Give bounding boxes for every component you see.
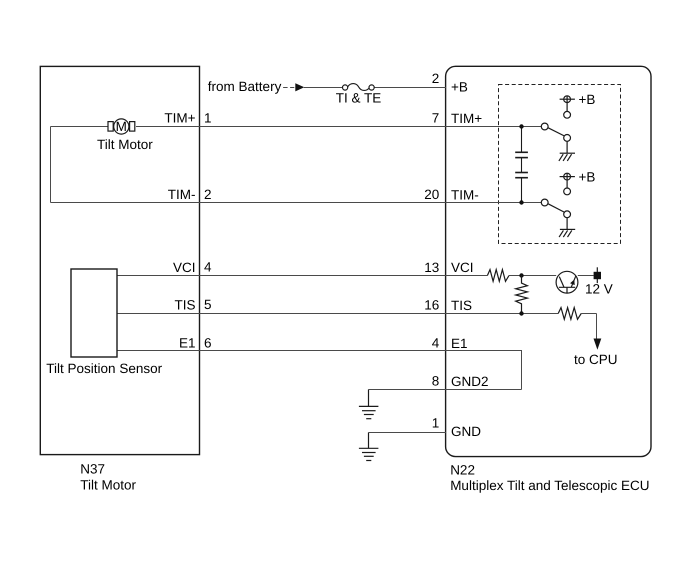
svg-text:Tilt Position Sensor: Tilt Position Sensor (46, 361, 162, 376)
svg-text:TIS: TIS (451, 298, 472, 313)
svg-text:7: 7 (432, 111, 440, 126)
capacitor C1 (515, 127, 528, 158)
wire TIS (117, 313, 558, 315)
relay contact SW1 (TIM+) with +B terminal and chassis ground (541, 96, 575, 161)
capacitor C2 (515, 158, 528, 203)
svg-text:2: 2 (204, 187, 212, 202)
wire GND2 (369, 389, 522, 391)
svg-text:GND2: GND2 (451, 374, 489, 389)
svg-text:13: 13 (424, 260, 439, 275)
svg-text:16: 16 (424, 298, 439, 313)
junction node TIS (519, 311, 523, 315)
fuse F1 TI & TE (343, 84, 375, 91)
transistor Q1 (NPN) (556, 271, 578, 293)
relay contact SW2 (TIM-) with +B terminal and chassis ground (541, 173, 575, 237)
svg-text:Tilt Motor: Tilt Motor (80, 477, 136, 492)
svg-text:5: 5 (204, 297, 212, 312)
wire loop vertical (50, 127, 52, 203)
svg-text:+B: +B (451, 79, 468, 94)
svg-text:Multiplex Tilt and Telescopic: Multiplex Tilt and Telescopic ECU (450, 478, 649, 493)
svg-text:TIM-: TIM- (451, 188, 479, 203)
dashed relay box (499, 85, 621, 244)
svg-text:1: 1 (432, 416, 440, 431)
svg-text:6: 6 (204, 336, 212, 351)
svg-text:N37: N37 (80, 462, 105, 477)
svg-text:Tilt Motor: Tilt Motor (97, 137, 153, 152)
arrow from Battery feed (295, 83, 304, 91)
wire TIM- (51, 202, 542, 204)
svg-text:E1: E1 (451, 336, 468, 351)
box N22 Multiplex Tilt and Telescopic ECU (446, 66, 651, 456)
svg-text:M: M (116, 119, 127, 134)
box Tilt Position Sensor (71, 269, 117, 357)
wire TIM+ motor to pivot (136, 126, 541, 128)
junction node TIM+ (519, 124, 523, 128)
svg-text:1: 1 (204, 111, 212, 126)
svg-text:20: 20 (424, 187, 439, 202)
arrow to CPU (594, 339, 602, 350)
svg-text:E1: E1 (179, 336, 196, 351)
svg-text:TIS: TIS (174, 298, 195, 313)
power terminal 12 V (594, 267, 601, 283)
motor M1 (Tilt Motor) (108, 119, 135, 134)
svg-text:+B: +B (579, 169, 596, 184)
svg-text:GND: GND (451, 424, 481, 439)
svg-text:TIM-: TIM- (168, 187, 196, 202)
wire to CPU vertical (596, 314, 598, 340)
svg-text:N22: N22 (450, 463, 475, 478)
svg-text:4: 4 (204, 259, 212, 274)
svg-text:TIM+: TIM+ (451, 111, 482, 126)
ground (earth) at GND2 (359, 390, 379, 419)
wire VCI (117, 275, 487, 277)
svg-text:TIM+: TIM+ (164, 111, 195, 126)
wire TIS resistor to corner (581, 313, 596, 315)
wire VCI junction to transistor (509, 275, 556, 277)
svg-text:2: 2 (432, 71, 440, 86)
svg-text:12 V: 12 V (585, 282, 613, 297)
junction node TIM- (519, 200, 523, 204)
svg-text:VCI: VCI (173, 260, 196, 275)
wire transistor to 12V square (578, 275, 594, 277)
wire motor left (51, 126, 109, 128)
resistor R1 horizontal VCI (487, 270, 509, 282)
resistor R3 horizontal TIS (558, 308, 581, 320)
wire GND (369, 432, 447, 434)
svg-text:VCI: VCI (451, 260, 474, 275)
ground (earth) at GND (359, 433, 379, 461)
svg-text:to CPU: to CPU (574, 352, 618, 367)
wire fuse to pin 2 (374, 87, 446, 89)
svg-text:4: 4 (432, 336, 440, 351)
junction node VCI (519, 273, 523, 277)
svg-text:TI & TE: TI & TE (336, 90, 382, 105)
box N37 Tilt Motor (40, 66, 199, 454)
wire from battery to fuse (304, 87, 343, 89)
wire E1 (117, 351, 522, 390)
svg-text:+B: +B (579, 92, 596, 107)
wire dashed lead from Battery (283, 87, 288, 89)
resistor R2 vertical (516, 276, 528, 314)
svg-text:from Battery: from Battery (208, 79, 282, 94)
svg-text:8: 8 (432, 374, 440, 389)
